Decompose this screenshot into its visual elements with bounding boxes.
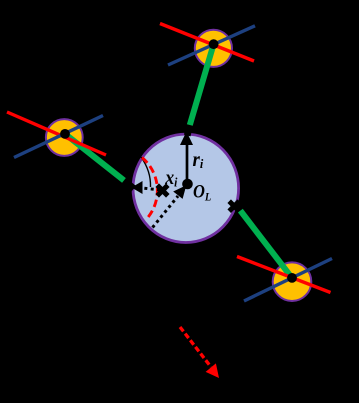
wire red axis S3 — [237, 257, 331, 293]
wire red axis S1 — [160, 24, 254, 62]
marker X at x_i — [157, 185, 168, 196]
node O_L dot — [182, 179, 193, 190]
wire green link S3 to O_L — [240, 210, 293, 278]
arrowhead diagonal (points at O_L) — [173, 185, 186, 199]
arrowhead green S1 tip — [187, 125, 190, 136]
arc red dashed — [142, 158, 157, 219]
node S2 center dot — [60, 129, 70, 139]
node S3 center dot — [287, 273, 297, 283]
marker X on circle edge (S3 link) — [229, 201, 239, 211]
node S1 center dot — [209, 39, 219, 49]
satellite S2 (left) body — [46, 119, 83, 156]
wire green link S1 to O_L — [190, 44, 214, 126]
wire navy axis S3 — [244, 259, 332, 302]
arrowhead green S2 tip — [124, 181, 134, 189]
arrowhead red dashed arrow — [206, 363, 219, 378]
arrowhead r_i — [180, 132, 193, 146]
wire navy axis S1 — [168, 26, 255, 65]
wire dotted x_i segment — [138, 188, 160, 191]
wire dotted diagonal to O_L — [153, 196, 179, 228]
arc angle (thin black) — [141, 157, 151, 187]
arrowhead green S3 tip — [236, 205, 241, 211]
satellite S3 (bottom right) body — [273, 262, 312, 301]
wire green link S2 to O_L — [65, 134, 129, 184]
lens circle O_L — [133, 134, 239, 242]
wire red axis S2 — [7, 112, 106, 155]
wire navy axis S2 — [14, 116, 103, 158]
satellite S1 (top) body — [195, 30, 232, 67]
arrowhead left (dotted line) — [132, 181, 143, 194]
arrow red dashed (motion) shaft — [180, 327, 211, 367]
arrow r_i shaft — [186, 143, 189, 184]
